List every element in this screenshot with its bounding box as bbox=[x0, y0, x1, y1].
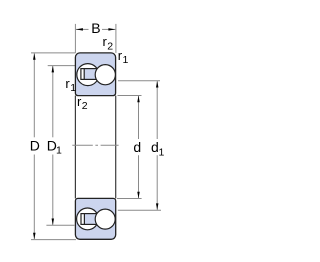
dimension B extension left bbox=[74, 24, 76, 53]
top section outer ring bbox=[75, 53, 115, 96]
bottom cage inner bbox=[84, 214, 96, 225]
bottom left ball bbox=[77, 208, 99, 230]
bottom section outer ring bbox=[75, 198, 115, 239]
extension line D1 bottom bbox=[46, 224, 74, 226]
top cage inner bbox=[84, 69, 97, 80]
top cage outer bbox=[81, 69, 97, 80]
svg-text:d: d bbox=[133, 139, 141, 155]
bore silhouette line right bbox=[115, 96, 117, 199]
extension line D top bbox=[31, 52, 76, 54]
extension line d1 bottom bbox=[118, 209, 161, 211]
dimension line D bbox=[33, 54, 35, 138]
dimension line D1 bbox=[52, 66, 54, 137]
extension line D bottom bbox=[31, 239, 76, 241]
bottom cage outer bbox=[81, 214, 97, 225]
svg-text:D: D bbox=[30, 138, 40, 154]
bottom right ball bbox=[95, 209, 115, 229]
dimension line d bbox=[138, 96, 140, 139]
svg-text:B: B bbox=[91, 20, 100, 36]
top right ball bbox=[95, 65, 115, 85]
bore silhouette line left bbox=[74, 96, 76, 199]
svg-text:2: 2 bbox=[107, 41, 113, 53]
extension line d1 top bbox=[118, 80, 160, 82]
extension line d top bbox=[118, 95, 142, 97]
extension line d bottom bbox=[117, 198, 142, 200]
extension line D1 top bbox=[48, 65, 76, 67]
svg-text:2: 2 bbox=[82, 100, 88, 112]
svg-text:1: 1 bbox=[123, 54, 129, 66]
svg-text:1: 1 bbox=[56, 145, 62, 157]
dimension line d1 bbox=[156, 81, 158, 139]
dimension line B bbox=[76, 28, 89, 30]
dimension B extension right bbox=[115, 24, 117, 53]
svg-text:1: 1 bbox=[70, 82, 76, 94]
top left ball bbox=[77, 64, 99, 86]
svg-text:1: 1 bbox=[159, 146, 165, 158]
centerline axis bbox=[72, 144, 119, 146]
